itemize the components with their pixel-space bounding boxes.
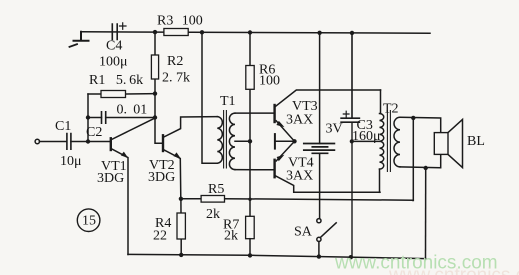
node: VT3/VT4 emitter junction bbox=[292, 139, 296, 143]
wire: T2 secondary top to speaker bbox=[400, 117, 441, 132]
node: rail/R7 bbox=[248, 253, 252, 257]
wire: VT3 collector to T2 primary top bbox=[380, 90, 382, 114]
node A dot at input wire bbox=[86, 139, 90, 143]
node: rail/C3 column bbox=[349, 255, 353, 259]
speaker BL bbox=[434, 133, 448, 155]
node: feedback tap on secondary top bbox=[411, 116, 415, 120]
transistor VT2 bbox=[155, 118, 162, 144]
svg-text:3AX: 3AX bbox=[286, 169, 313, 184]
plus sign of C4 bbox=[120, 23, 127, 30]
svg-text:10μ: 10μ bbox=[60, 154, 82, 169]
wire: feedback from secondary top down to R5 line bbox=[412, 118, 414, 201]
wire: top supply bus bbox=[81, 32, 430, 33]
wire: node A column bbox=[87, 94, 89, 142]
capacitor C1 bbox=[67, 134, 71, 150]
capacitor C2 bbox=[88, 117, 155, 119]
wire: T1 secondary bottom to VT4 base bbox=[235, 169, 274, 171]
capacitor C3 bbox=[341, 33, 359, 122]
svg-text:22: 22 bbox=[153, 229, 167, 244]
svg-text:R2: R2 bbox=[167, 54, 183, 69]
node: bus/R6 junction bbox=[248, 30, 252, 34]
resistor R1 bbox=[88, 93, 155, 95]
resistor R3 bbox=[164, 29, 188, 36]
transistor VT3 bbox=[273, 105, 275, 122]
node A dot at C2 branch bbox=[86, 115, 90, 119]
svg-text:R3 100: R3 100 bbox=[157, 14, 203, 29]
resistor R6 bbox=[246, 66, 254, 90]
transformer T2 secondary winding bbox=[394, 117, 400, 167]
node: R7 top bbox=[248, 198, 251, 201]
resistor R4 bbox=[180, 199, 182, 255]
wire: C1 to node A bbox=[71, 141, 110, 143]
wire: T2 secondary bottom bbox=[400, 154, 441, 167]
switch SA bbox=[317, 219, 321, 223]
transformer T1 core bbox=[224, 111, 227, 169]
svg-text:T2: T2 bbox=[383, 102, 399, 117]
resistor R5 line: VT2 emitter node to feedback bbox=[181, 199, 413, 201]
node: bus/battery junction bbox=[317, 31, 321, 35]
transformer T1 primary winding bbox=[202, 32, 217, 163]
wire: input to C1 bbox=[40, 141, 67, 143]
svg-text:100μ: 100μ bbox=[99, 55, 128, 70]
transistor VT1 bbox=[110, 138, 112, 150]
transformer T2 core bbox=[387, 111, 390, 172]
svg-text:3AX: 3AX bbox=[286, 113, 313, 128]
figure number 15 bbox=[77, 209, 100, 232]
wire: bias column R6 to R7 bbox=[249, 33, 251, 217]
input terminal bbox=[35, 139, 39, 143]
node B: R2/C2/VT1 collector/VT2 base bbox=[153, 115, 157, 119]
plus sign of C3 bbox=[343, 111, 349, 117]
svg-text:160μ: 160μ bbox=[352, 129, 381, 144]
wire: T1 secondary top to VT3 base bbox=[235, 112, 274, 114]
node: rail/R4 bbox=[179, 253, 183, 257]
svg-text:www.cntronics.com: www.cntronics.com bbox=[388, 265, 519, 275]
transformer T1 secondary winding bbox=[229, 113, 235, 170]
svg-text:T1: T1 bbox=[220, 94, 236, 109]
wire: T1 secondary center tap bbox=[235, 140, 250, 142]
node: T2 center tap to C3 column bbox=[350, 139, 354, 143]
transistor VT4 bbox=[273, 160, 275, 177]
wire: T2 primary bottom to VT4 collector line bbox=[379, 169, 381, 192]
ground bbox=[74, 32, 89, 41]
transformer T2 primary winding bbox=[380, 114, 384, 170]
capacitor C4 bbox=[112, 24, 117, 40]
svg-text:3V: 3V bbox=[326, 122, 343, 137]
node: R1/R2 junction bbox=[153, 91, 157, 95]
svg-text:2. 7k: 2. 7k bbox=[162, 71, 190, 86]
wire: output drop to bottom rail bbox=[425, 168, 427, 259]
resistor R2 bbox=[154, 32, 156, 117]
node: secondary bottom / rail drop bbox=[424, 166, 428, 170]
wire: T2 primary center tap bbox=[352, 140, 380, 142]
svg-text:R5: R5 bbox=[208, 182, 224, 197]
svg-text:15: 15 bbox=[82, 214, 96, 229]
svg-text:C2: C2 bbox=[86, 125, 102, 140]
emitter junction terminal bar bbox=[274, 134, 276, 149]
svg-text:3DG: 3DG bbox=[148, 170, 175, 185]
svg-text:SA: SA bbox=[294, 225, 313, 240]
svg-text:0. 01: 0. 01 bbox=[117, 103, 148, 118]
svg-text:R1 5. 6k: R1 5. 6k bbox=[89, 73, 143, 88]
svg-text:2k: 2k bbox=[224, 229, 238, 244]
svg-text:2k: 2k bbox=[206, 207, 220, 222]
battery GB 3V bbox=[319, 33, 321, 144]
node: bus/T1 junction bbox=[200, 30, 204, 34]
svg-text:C1: C1 bbox=[55, 119, 71, 134]
node: bus/R2 junction bbox=[153, 30, 157, 34]
node: center tap junction bbox=[248, 139, 252, 143]
resistor R7 bbox=[246, 216, 255, 238]
svg-text:BL: BL bbox=[467, 134, 485, 149]
wire: bottom rail bbox=[128, 254, 426, 258]
svg-text:3DG: 3DG bbox=[97, 171, 124, 186]
node: rail/SA bbox=[317, 254, 321, 258]
svg-text:100: 100 bbox=[259, 74, 280, 89]
node: bus/C3 junction bbox=[350, 31, 354, 35]
node: R4 top bbox=[179, 197, 183, 201]
svg-text:C4: C4 bbox=[106, 39, 122, 54]
